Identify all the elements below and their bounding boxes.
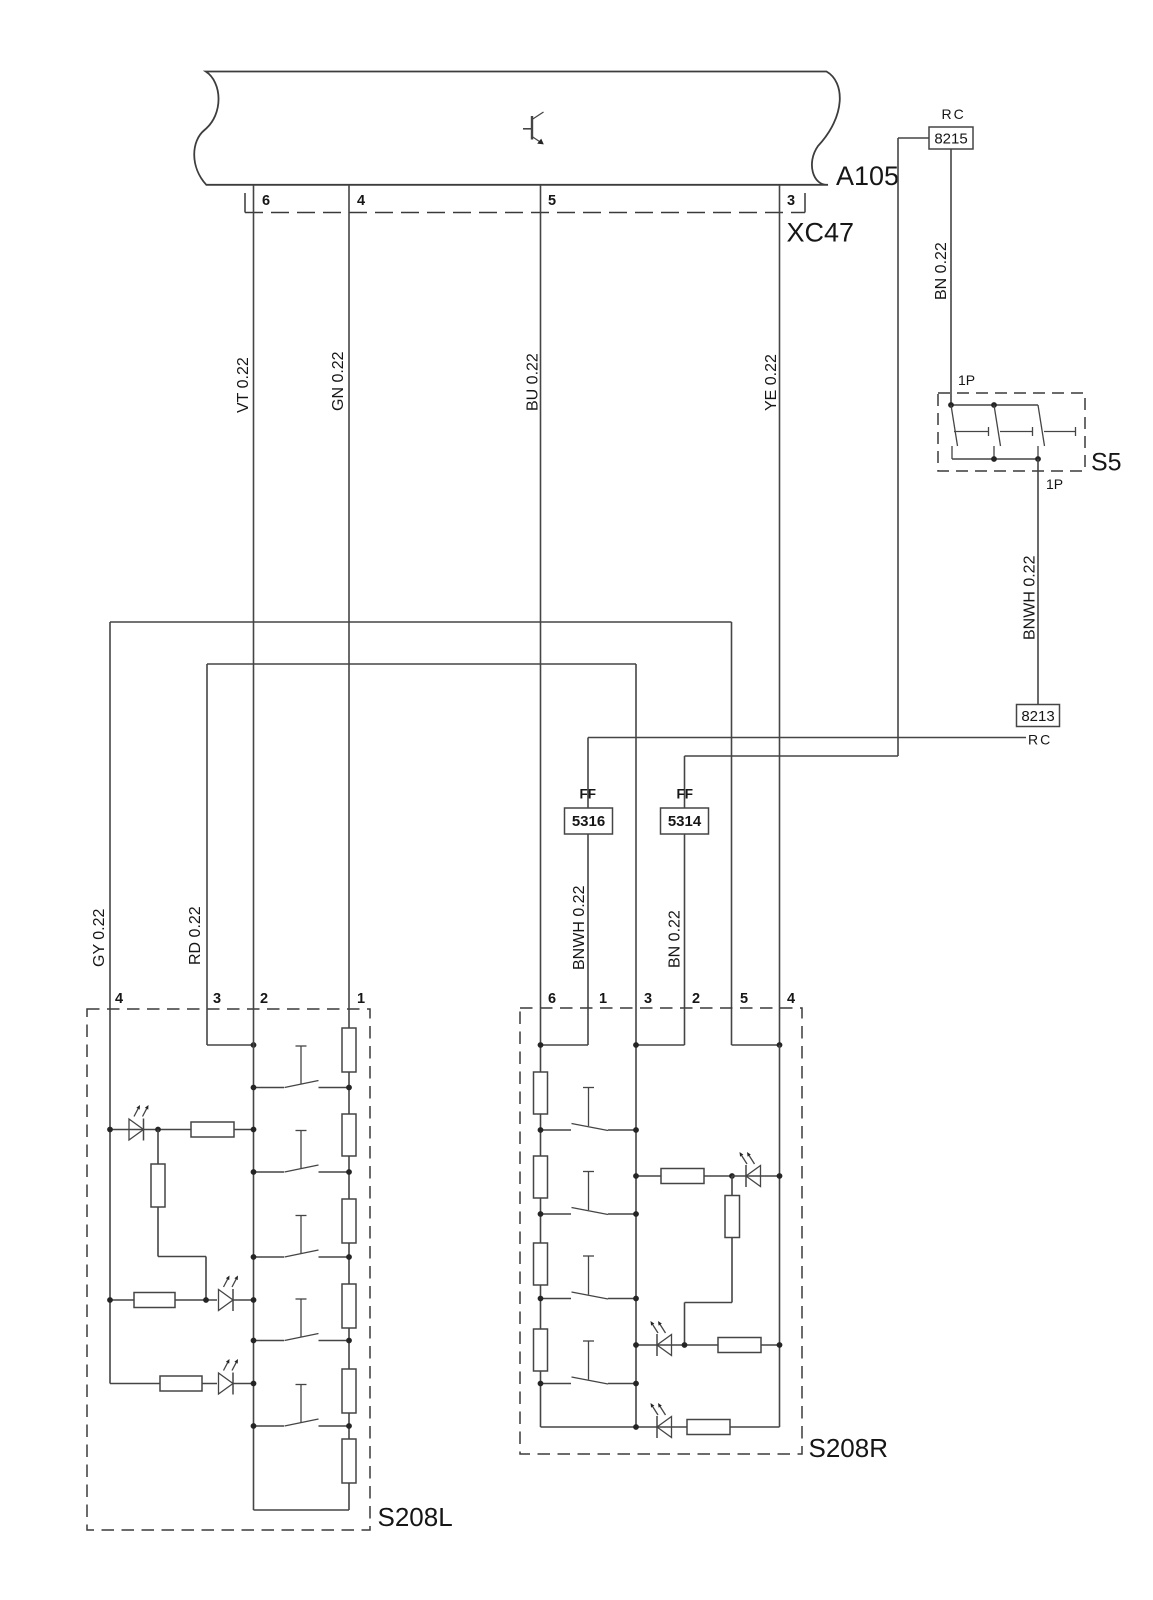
svg-text:A105: A105 <box>836 161 899 191</box>
node S208R SW4 right <box>633 1381 639 1387</box>
switch S208R SW1 <box>541 1088 637 1131</box>
switch S208L SW3 <box>254 1216 350 1258</box>
wire GY horizontal <box>110 621 732 623</box>
wire RD drop to S208R pin3 <box>635 664 637 1427</box>
svg-text:S208R: S208R <box>809 1433 889 1463</box>
svg-text:RD 0.22: RD 0.22 <box>187 906 204 965</box>
svg-text:5: 5 <box>740 991 748 1007</box>
LED D6 <box>651 1403 672 1438</box>
resistor S208L R2 <box>342 1114 356 1156</box>
S5 stub 3 <box>1037 446 1039 459</box>
resistor S208L R4 <box>342 1284 356 1328</box>
svg-text:1: 1 <box>357 991 365 1007</box>
S208L column 1 <box>348 1008 350 1510</box>
node S208R SW1 right <box>633 1127 639 1133</box>
resistor S208R R1 <box>534 1072 548 1114</box>
svg-text:4: 4 <box>115 991 123 1007</box>
wire RC net to 5316 <box>588 737 1026 739</box>
node rowB col4 <box>777 1342 783 1348</box>
resistor S208R R7 <box>718 1338 761 1353</box>
svg-text:XC47: XC47 <box>787 218 855 248</box>
resistor S208R R6 <box>725 1196 740 1238</box>
svg-text:4: 4 <box>357 193 365 209</box>
node pin2-col3 <box>633 1042 639 1048</box>
switch unit S208L dashed box <box>87 1009 370 1530</box>
wire D1 node down <box>157 1130 159 1165</box>
resistor S208L R3 <box>342 1199 356 1243</box>
node row2 mid <box>203 1297 209 1303</box>
fuse box 5314 <box>661 808 709 834</box>
S208R LED row B wire <box>636 1344 780 1346</box>
terminal box 8215 <box>929 127 973 149</box>
wire BNWH S5 to 8213 <box>1037 459 1039 705</box>
node S208R SW3 left <box>538 1296 544 1302</box>
switch S208R SW3 <box>541 1256 637 1299</box>
node row2 left <box>107 1297 113 1303</box>
XC47 left bracket <box>244 193 246 213</box>
node D1 cathode <box>155 1127 161 1133</box>
svg-text:8213: 8213 <box>1021 708 1054 725</box>
S208R LED row C wire <box>541 1426 780 1428</box>
wire vertical x=898 down <box>897 138 899 756</box>
wire rowA to col4 <box>732 1175 780 1177</box>
svg-text:S5: S5 <box>1091 449 1122 477</box>
S5 blade 1 <box>951 405 958 446</box>
connector XC47 dashed line <box>245 212 805 214</box>
wire horizontal to 5314 <box>685 755 899 757</box>
node S208L SW2 right <box>346 1169 352 1175</box>
wire RD horizontal <box>207 663 636 665</box>
resistor S208L R1 <box>342 1028 356 1072</box>
connector band A105 outline <box>194 72 840 185</box>
node row3 column2 <box>251 1381 257 1387</box>
S208L bottom link <box>254 1509 350 1511</box>
wire GN pin4 to S208L pin1 <box>348 185 350 1008</box>
wire GY S208L pin4 riser / column 4 <box>109 622 111 1384</box>
resistor S208R R5 <box>661 1169 704 1184</box>
svg-text:BN 0.22: BN 0.22 <box>667 910 684 968</box>
svg-text:3: 3 <box>787 193 795 209</box>
resistor S208L R7 <box>191 1122 234 1137</box>
svg-text:GY 0.22: GY 0.22 <box>91 908 108 967</box>
wire BN 8215 to S5 <box>950 149 952 405</box>
wire down to 5314 <box>684 756 686 808</box>
XC47 right bracket <box>804 193 806 213</box>
fuse box 5316 <box>565 808 613 834</box>
node rowA col3 <box>633 1173 639 1179</box>
node S208R SW2 left <box>538 1211 544 1217</box>
node rowB mid <box>682 1342 688 1348</box>
switch S208L SW1 <box>254 1046 350 1088</box>
svg-text:1P: 1P <box>958 372 975 388</box>
wire 8215 to left drop <box>898 137 929 139</box>
S208L column 2 <box>253 1008 255 1510</box>
S208R pin5 entry <box>732 1044 780 1046</box>
node S208L SW5 right <box>346 1423 352 1429</box>
wire R6 jog down <box>731 1238 733 1303</box>
node D1 left <box>107 1127 113 1133</box>
S208R pin2 entry <box>684 1008 686 1045</box>
node S208R SW1 left <box>538 1127 544 1133</box>
svg-text:5316: 5316 <box>572 813 605 830</box>
node S208L SW5 left <box>251 1423 257 1429</box>
resistor S208R R8 <box>687 1420 730 1435</box>
terminal box 8213 <box>1017 705 1060 727</box>
resistor S208L R10 <box>160 1376 202 1391</box>
wire VT pin6 to S208L pin2 <box>253 185 255 1008</box>
switch S208R SW4 <box>541 1341 637 1384</box>
svg-text:GN 0.22: GN 0.22 <box>330 351 347 411</box>
S5 stub 2 <box>993 446 995 459</box>
svg-text:S208L: S208L <box>378 1502 453 1532</box>
svg-text:8215: 8215 <box>934 131 967 148</box>
svg-text:2: 2 <box>692 991 700 1007</box>
resistor S208R R2 <box>534 1156 548 1198</box>
node rowB col3 <box>633 1342 639 1348</box>
node S208L SW1 right <box>346 1085 352 1091</box>
S208L LED row 3 wire <box>110 1383 217 1385</box>
S208R column 4 <box>779 1045 781 1427</box>
S208R column 6 <box>540 1008 542 1427</box>
wire R5 to node <box>704 1175 732 1177</box>
node S208L SW1 left <box>251 1085 257 1091</box>
node S5 in <box>948 402 954 408</box>
switch S208L SW2 <box>254 1131 350 1173</box>
resistor S208L R5 <box>342 1369 356 1413</box>
S208L LED row 2 wire <box>110 1299 217 1301</box>
svg-text:RC: RC <box>942 106 966 122</box>
svg-text:3: 3 <box>644 991 652 1007</box>
wire rowA node down <box>731 1176 733 1196</box>
svg-text:1P: 1P <box>1046 476 1063 492</box>
transistor symbol inside A105 <box>523 112 544 144</box>
node S5 bottom mid <box>991 456 997 462</box>
wire R7 to column2 <box>234 1129 254 1131</box>
LED D4 <box>740 1152 761 1187</box>
svg-text:5: 5 <box>548 193 556 209</box>
node row2 column2 <box>251 1297 257 1303</box>
svg-text:1: 1 <box>599 991 607 1007</box>
node S5 mid-top <box>991 402 997 408</box>
switch S208L SW4 <box>254 1299 350 1341</box>
S5 linkage <box>954 427 1076 436</box>
node rowA mid <box>729 1173 735 1179</box>
wire R8 down-jog <box>157 1207 159 1257</box>
wire BN 5314 to S208R pin2 <box>684 834 686 1008</box>
node S208R SW3 right <box>633 1296 639 1302</box>
svg-text:FF: FF <box>580 787 597 802</box>
node S208R SW4 left <box>538 1381 544 1387</box>
wire GY drop to S208R pin5 <box>731 622 733 1045</box>
S5 top bus <box>951 404 1038 406</box>
switch unit S208R dashed box <box>520 1008 802 1454</box>
wire YE pin3 to S208R pin4 <box>779 185 781 1045</box>
resistor S208L R8 <box>151 1164 165 1207</box>
node S208L SW4 left <box>251 1338 257 1344</box>
svg-text:YE 0.22: YE 0.22 <box>763 354 780 411</box>
node pin1-col6 <box>538 1042 544 1048</box>
node S208L SW4 right <box>346 1338 352 1344</box>
wire RD S208L pin3 riser <box>206 664 208 1008</box>
node row1 column2 <box>251 1127 257 1133</box>
resistor S208R R4 <box>534 1329 548 1371</box>
switch S208L SW5 <box>254 1385 350 1427</box>
node rowC col3 <box>633 1424 639 1430</box>
S5 stub 1 <box>951 446 953 459</box>
wire D2 to column2 <box>233 1299 254 1301</box>
svg-text:6: 6 <box>262 193 270 209</box>
wire RC down to 5316 <box>587 738 589 809</box>
svg-text:BU 0.22: BU 0.22 <box>525 353 542 411</box>
node pin3 to column2 <box>251 1042 257 1048</box>
node rowA col4 <box>777 1173 783 1179</box>
wire BNWH 5316 to S208R pin1 <box>587 834 589 1008</box>
S5 bottom bus <box>952 458 1038 460</box>
svg-text:4: 4 <box>787 991 795 1007</box>
S5 blade 3 <box>1038 405 1045 446</box>
svg-text:BNWH 0.22: BNWH 0.22 <box>571 885 588 970</box>
svg-text:FF: FF <box>677 787 694 802</box>
svg-text:VT 0.22: VT 0.22 <box>235 357 252 413</box>
svg-text:3: 3 <box>213 991 221 1007</box>
S208L LED row 1 wire <box>110 1129 191 1131</box>
resistor S208L R6 <box>342 1439 356 1483</box>
LED D2 <box>219 1276 239 1312</box>
wire D3 to column2 <box>233 1383 254 1385</box>
node S208L SW3 left <box>251 1254 257 1260</box>
resistor S208L R9 <box>134 1293 175 1308</box>
S208R LED row A wire <box>636 1175 661 1177</box>
LED D5 <box>651 1321 672 1356</box>
svg-text:6: 6 <box>548 991 556 1007</box>
resistor S208R R3 <box>534 1243 548 1285</box>
S208L pin3 entry wire <box>206 1008 208 1045</box>
node S5 out <box>1035 456 1041 462</box>
svg-text:5314: 5314 <box>668 813 702 830</box>
wire BU pin5 to S208R pin6 <box>540 185 542 1008</box>
S208R pin1 entry <box>587 1008 589 1045</box>
svg-text:RC: RC <box>1028 732 1052 748</box>
LED D3 <box>219 1359 239 1395</box>
node S208L SW2 left <box>251 1169 257 1175</box>
node S208R SW2 right <box>633 1211 639 1217</box>
LED D1 <box>129 1105 149 1141</box>
svg-text:BN 0.22: BN 0.22 <box>933 242 950 300</box>
switch S5 dashed box <box>938 393 1085 471</box>
node S208L SW3 right <box>346 1254 352 1260</box>
svg-text:BNWH 0.22: BNWH 0.22 <box>1022 555 1039 640</box>
S5 blade 2 <box>994 405 1001 446</box>
switch S208R SW2 <box>541 1172 637 1215</box>
svg-text:2: 2 <box>260 991 268 1007</box>
node pin5-col4 <box>777 1042 783 1048</box>
